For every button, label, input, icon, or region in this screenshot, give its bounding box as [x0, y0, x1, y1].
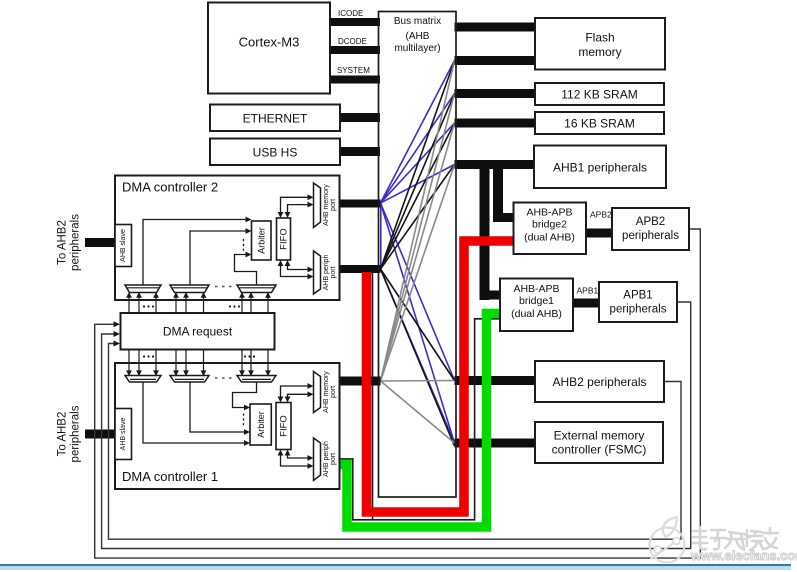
- wire DMA1 FIFO to AHB memory port (upper): [281, 386, 309, 398]
- svg-text:AHB-APB: AHB-APB: [513, 283, 559, 295]
- dots between stems DMA1: [143, 355, 145, 357]
- svg-text:(dual AHB): (dual AHB): [524, 232, 575, 244]
- svg-text:AHB1 peripherals: AHB1 peripherals: [553, 161, 647, 175]
- wire trunk elbow into bridge1: [480, 291, 501, 300]
- svg-text:DMA controller 2: DMA controller 2: [122, 180, 218, 195]
- port trapezoid DMA2 AHB memory: [314, 183, 321, 228]
- svg-text:AHB memory: AHB memory: [323, 371, 330, 413]
- svg-text:APB2: APB2: [590, 210, 612, 220]
- watermark logo diagonal link: [651, 540, 679, 559]
- box AHB slave (DMA2): [115, 225, 132, 267]
- ellipsis dashes between muxes DMA1: [215, 377, 232, 379]
- wire DCODE bus Cortex to bus matrix: [330, 46, 380, 54]
- box FIFO (DMA1): [276, 403, 291, 450]
- wire DMA1 mux1 to Arbiter: [143, 382, 245, 443]
- wire red highlighted path: DMA2 periph port around bus matrix to AHB-APB bridge2: [367, 241, 514, 512]
- svg-text:port: port: [330, 453, 337, 465]
- mux trapezoid 2 DMA1: [170, 376, 209, 383]
- wire DMA1 AHB memory port to bus matrix: [340, 377, 381, 386]
- wire bus-matrix fan: B to AHB1, black: [381, 165, 455, 270]
- wire DMA2 FIFO to AHB memory port (upper): [281, 197, 309, 214]
- wire DMA2 FIFO to AHB periph port (lower): [281, 264, 309, 277]
- box Arbiter (DMA2): [252, 221, 272, 260]
- box DMA controller 1: [115, 363, 340, 489]
- wire ICODE bus Cortex to bus matrix: [330, 18, 380, 26]
- svg-text:peripherals: peripherals: [70, 214, 82, 271]
- svg-text:bridge1: bridge1: [519, 295, 554, 307]
- arrowheads into DMA2 Arbiter: [246, 217, 252, 223]
- svg-text:SYSTEM: SYSTEM: [337, 66, 370, 75]
- wire bus-matrix fan: B to SRAM16, black: [381, 123, 455, 269]
- box AHB slave (DMA1): [115, 409, 132, 460]
- wire bus-matrix fan: C to SRAM112, gray: [381, 94, 455, 382]
- svg-text:Arbiter: Arbiter: [257, 227, 267, 254]
- svg-text:port: port: [330, 199, 337, 211]
- box DMA request: [121, 313, 275, 350]
- wire trunk to AHB-APB bridge2, vertical: [493, 164, 503, 222]
- watermark chinese calligraphy strokes: [693, 527, 778, 550]
- wire dashed arbiter input DMA2: [243, 239, 245, 252]
- wire feedback loop APB1 peripherals to DMA request: [102, 302, 691, 549]
- svg-text:bridge2: bridge2: [532, 219, 567, 231]
- svg-text:port: port: [330, 266, 337, 278]
- wire bus matrix to 16KB SRAM: [455, 119, 536, 128]
- svg-text:APB1: APB1: [623, 290, 652, 302]
- box 112 KB SRAM: [535, 83, 664, 105]
- mux trapezoid 3 DMA1: [237, 376, 276, 383]
- wire bus-matrix fan: DMA2-mem(A) to FlashD, blue: [381, 61, 455, 204]
- svg-text:www.elecfans.com: www.elecfans.com: [690, 548, 797, 563]
- watermark logo circle: [650, 528, 685, 563]
- box Arbiter (DMA1): [250, 404, 271, 445]
- svg-text:Flash: Flash: [585, 31, 614, 45]
- port trapezoid DMA1 AHB periph: [314, 438, 321, 481]
- box DMA controller 2: [115, 176, 340, 301]
- svg-text:ETHERNET: ETHERNET: [243, 112, 308, 126]
- wire DMA1 FIFO to AHB periph port (lower): [281, 454, 309, 466]
- wire bus-matrix fan: B to FlashD, black: [381, 61, 455, 270]
- port trapezoid DMA2 AHB periph: [314, 251, 321, 294]
- wire DMA2 FIFO to AHB periph port (upper): [288, 264, 309, 270]
- svg-text:AHB2 peripherals: AHB2 peripherals: [552, 375, 646, 389]
- svg-text:DMA controller 1: DMA controller 1: [122, 469, 218, 484]
- wire bus-matrix edge segment A-B, blue: [380, 203, 382, 269]
- wire DMA2 mux1 to Arbiter: [143, 220, 246, 286]
- wire bus-matrix fan: DMA1-mem(C) to FlashD, gray: [381, 61, 455, 382]
- mux trapezoid 3 DMA2: [237, 285, 276, 293]
- wire DMA2 AHB periph port to bus matrix: [340, 265, 381, 273]
- svg-text:ICODE: ICODE: [338, 9, 363, 18]
- wire bus-matrix fan: C to FSMC, gray: [381, 381, 455, 443]
- wire To-AHB2-peripherals stub at DMA2 AHB slave: [85, 238, 115, 247]
- wire USB HS to bus matrix: [340, 147, 380, 156]
- stems DMA request to DMA1 muxes: [129, 350, 156, 371]
- box Cortex-M3: [208, 3, 330, 94]
- svg-text:peripherals: peripherals: [610, 304, 667, 316]
- wire SYSTEM bus Cortex to bus matrix: [330, 76, 380, 84]
- svg-text:(dual AHB): (dual AHB): [511, 308, 562, 320]
- wire feedback loop AHB2 peripherals to DMA request: [109, 344, 682, 540]
- svg-text:peripherals: peripherals: [622, 230, 679, 242]
- box USB HS: [210, 139, 340, 166]
- svg-text:AHB periph: AHB periph: [323, 254, 330, 290]
- arrowheads into DMA request box: [114, 321, 121, 327]
- box Bus matrix (border only, over fan lines): [379, 12, 457, 498]
- wire DMA2 mux3 to Arbiter (jog): [235, 255, 257, 286]
- box Flash memory: [535, 18, 665, 70]
- wire bus-matrix fan: C to AHB2, gray: [381, 380, 455, 383]
- wire thin black companion of red highlight (original DMA2-periph route): [372, 271, 374, 520]
- svg-text:memory: memory: [578, 45, 621, 59]
- arrowheads up into DMA2 muxes: [126, 292, 132, 298]
- box AHB2 peripherals: [535, 361, 664, 402]
- wire feedback loop APB2 peripherals to DMA request: [95, 229, 701, 558]
- wire thin black companion of green highlight (original DMA1-periph to bridge1 route): [340, 319, 500, 520]
- wire bus-matrix fan: DMA2-periph(B) to FSMC, blue: [381, 269, 455, 443]
- svg-text:AHB-APB: AHB-APB: [526, 207, 572, 219]
- wire bus matrix to FSMC: [455, 439, 536, 448]
- wire DMA1 mux3 to Arbiter (jog): [233, 382, 257, 408]
- svg-text:controller (FSMC): controller (FSMC): [552, 443, 647, 457]
- box AHB-APB bridge2: [514, 203, 587, 255]
- wire bus-matrix fan: A to AHB1, blue: [381, 165, 455, 204]
- svg-text:APB1: APB1: [577, 286, 599, 296]
- wire DMA2 mux2 to Arbiter: [190, 231, 246, 285]
- svg-text:16 KB SRAM: 16 KB SRAM: [564, 117, 635, 131]
- arrowheads DMA2 FIFO/ports: [308, 194, 314, 200]
- stems DMA request to DMA2 muxes: [129, 298, 156, 314]
- port trapezoid DMA1 AHB memory: [314, 372, 321, 413]
- svg-text:Bus matrix: Bus matrix: [394, 16, 441, 27]
- svg-text:multilayer): multilayer): [394, 43, 440, 54]
- wire DMA1 FIFO to AHB memory port (lower): [288, 394, 309, 398]
- ellipsis dashes between muxes DMA2: [215, 286, 232, 288]
- wire bus-matrix fan: C to SRAM16, gray: [381, 123, 455, 381]
- bus matrix interior background: [379, 12, 457, 498]
- dots between stems DMA2: [143, 305, 145, 307]
- box External memory controller (FSMC): [535, 422, 663, 463]
- footer teal bar: [0, 564, 791, 566]
- box ETHERNET: [210, 105, 340, 132]
- wire dashed arbiter input DMA1: [243, 414, 245, 428]
- wire To-AHB2-peripherals stub at DMA1 AHB slave: [85, 430, 115, 439]
- svg-text:(AHB: (AHB: [406, 31, 430, 42]
- wire ETHERNET to bus matrix: [340, 113, 380, 122]
- wire bus-matrix fan: A to FSMC, blue: [381, 203, 455, 443]
- mux trapezoid 1 DMA1: [125, 376, 161, 383]
- wire bus matrix to Flash (ICODE): [455, 23, 536, 32]
- svg-text:AHB slave: AHB slave: [120, 418, 127, 451]
- svg-text:AHB memory: AHB memory: [323, 184, 330, 226]
- wire bus matrix to Flash (DCODE): [455, 56, 536, 65]
- svg-text:AHB slave: AHB slave: [120, 229, 127, 262]
- arrowheads down into DMA1 muxes: [126, 370, 132, 376]
- box FIFO (DMA2): [277, 218, 291, 260]
- box APB2 peripherals: [612, 208, 689, 250]
- wire bus-matrix fan: C to AHB1, gray: [381, 165, 455, 382]
- wire bus matrix to 112KB SRAM: [455, 89, 536, 98]
- wire bus-matrix fan: B to AHB2, black: [381, 269, 455, 381]
- watermark logo leaf: [663, 517, 677, 537]
- box AHB1 peripherals: [534, 146, 666, 189]
- wire bus-matrix fan: A to SRAM112, blue: [381, 94, 455, 204]
- svg-text:External memory: External memory: [554, 429, 645, 443]
- svg-text:APB2: APB2: [636, 216, 665, 228]
- wire DMA2 FIFO to AHB memory port (lower): [288, 205, 309, 214]
- svg-text:Arbiter: Arbiter: [256, 411, 266, 438]
- svg-text:port: port: [330, 386, 337, 398]
- box APB1 peripherals: [599, 282, 677, 322]
- wire trunk elbow into bridge2: [493, 213, 514, 222]
- wire DMA2 AHB memory port to bus matrix: [340, 200, 381, 208]
- mux trapezoid 2 DMA2: [170, 285, 209, 293]
- svg-text:DMA request: DMA request: [163, 325, 233, 339]
- svg-text:To AHB2: To AHB2: [57, 220, 69, 265]
- box 16 KB SRAM: [535, 112, 664, 134]
- svg-text:Cortex-M3: Cortex-M3: [239, 35, 300, 50]
- wire bridge1 to APB1 peripherals: [573, 299, 599, 308]
- svg-text:USB HS: USB HS: [253, 146, 298, 160]
- svg-text:FIFO: FIFO: [278, 228, 289, 250]
- svg-text:AHB periph: AHB periph: [323, 441, 330, 477]
- wire DMA1 mux2 to Arbiter: [190, 382, 245, 432]
- svg-text:peripherals: peripherals: [70, 405, 82, 462]
- mux trapezoid 1 DMA2: [125, 285, 161, 293]
- svg-text:DCODE: DCODE: [338, 37, 367, 46]
- wire bus-matrix fan: B to FSMC, black: [381, 269, 455, 446]
- box AHB-APB bridge1: [500, 279, 573, 332]
- svg-text:To AHB2: To AHB2: [57, 412, 69, 457]
- wire bus-matrix fan: B to SRAM112, black: [381, 94, 455, 270]
- wire bus matrix to AHB2 peripherals: [455, 376, 536, 385]
- wire trunk to AHB-APB bridge1, vertical: [480, 164, 490, 300]
- wire bus-matrix fan: A to SRAM16, blue: [381, 123, 455, 203]
- wire bus-matrix fan: A to AHB2, blue: [381, 203, 455, 381]
- wire DMA1 FIFO to AHB periph port (upper): [288, 454, 309, 458]
- svg-text:112 KB SRAM: 112 KB SRAM: [561, 88, 637, 102]
- wire bridge2 to APB2 peripherals: [586, 229, 612, 238]
- wire bus matrix to AHB1 peripherals: [455, 160, 535, 169]
- arrowheads into DMA1 Arbiter: [244, 440, 250, 446]
- svg-text:FIFO: FIFO: [278, 415, 289, 437]
- wire green highlighted path: DMA1 periph port around bus matrix to AHB-APB bridge1: [340, 314, 500, 528]
- arrowheads DMA1 FIFO/ports: [308, 383, 314, 389]
